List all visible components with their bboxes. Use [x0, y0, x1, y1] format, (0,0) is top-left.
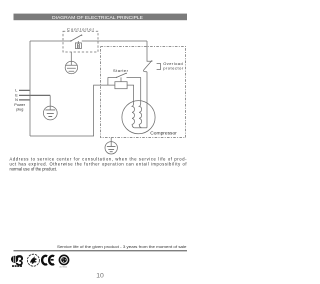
- svg-text:N: N: [15, 98, 18, 102]
- svg-text:protector: protector: [163, 66, 184, 71]
- svg-text:05 9001: 05 9001: [60, 266, 68, 268]
- svg-text:Service life of the given prod: Service life of the given product - 3 ye…: [57, 245, 187, 249]
- svg-text:normal use of the product.: normal use of the product.: [10, 166, 58, 171]
- svg-text:DIAGRAM OF ELECTRICAL PRINCIPL: DIAGRAM OF ELECTRICAL PRINCIPLE: [52, 15, 143, 20]
- svg-text:L: L: [15, 88, 17, 92]
- svg-text:Controller: Controller: [67, 26, 95, 31]
- svg-text:Starter: Starter: [113, 68, 129, 73]
- svg-text:Compressor: Compressor: [150, 130, 177, 135]
- svg-text:Power: Power: [14, 103, 25, 107]
- svg-text:plug: plug: [16, 107, 23, 111]
- svg-text:10: 10: [96, 272, 104, 279]
